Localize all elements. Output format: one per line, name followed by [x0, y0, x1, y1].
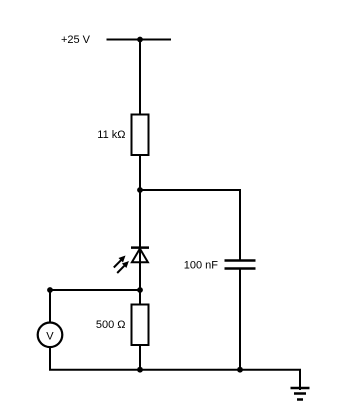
svg-text:500 Ω: 500 Ω — [96, 319, 126, 331]
wire: node B to voltmeter branch — [50, 289, 140, 291]
wire: corner to voltmeter — [49, 290, 51, 323]
voltmeter branch corner dot — [47, 287, 53, 293]
power rail +25V — [107, 39, 172, 41]
wire: voltmeter to bottom rail — [49, 347, 51, 370]
wire: node A to capacitor branch — [140, 190, 240, 260]
ground bar 3 — [297, 398, 303, 401]
svg-text:100 nF: 100 nF — [184, 260, 219, 272]
svg-text:V: V — [46, 330, 54, 342]
ground bar 1 — [291, 387, 310, 390]
junction dot resistor R2 at bottom rail — [137, 367, 143, 373]
resistor R2 body — [132, 305, 149, 346]
wire: node A through photodiode D1 to node B — [139, 190, 141, 290]
junction dot on +25V rail — [137, 37, 143, 43]
wire: rail to resistor R1 — [139, 40, 141, 116]
node B junction dot — [137, 287, 143, 293]
svg-text:+25 V: +25 V — [61, 34, 91, 46]
voltmeter M1 circle — [38, 323, 63, 348]
light arrow 1 into photodiode — [114, 256, 126, 268]
capacitor C1 top plate — [225, 259, 256, 262]
photodiode D1 triangle — [132, 249, 148, 263]
capacitor C1 bottom plate — [225, 267, 256, 270]
bottom rail wire — [49, 370, 300, 390]
wire: capacitor to bottom rail — [239, 270, 241, 370]
svg-text:11 kΩ: 11 kΩ — [97, 129, 125, 141]
wire: resistor R1 to node A — [139, 155, 141, 190]
node A junction dot — [137, 187, 143, 193]
ground bar 2 — [294, 392, 306, 395]
resistor R1 body — [132, 115, 149, 156]
photodiode D1 cathode bar — [131, 246, 149, 249]
wire: node B to resistor R2 — [139, 290, 141, 305]
junction dot capacitor at bottom rail — [237, 367, 243, 373]
wire: resistor R2 to bottom rail — [139, 345, 141, 370]
light arrow 2 into photodiode — [117, 261, 129, 273]
